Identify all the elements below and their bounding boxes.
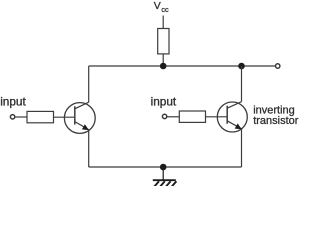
wire terminal to R2 [16, 116, 28, 118]
resistor R2 [27, 111, 54, 122]
wire R2 to Q1 base [54, 116, 75, 118]
wire node to Q1 collector [88, 66, 90, 102]
wire Q2 emitter to bottom bus [241, 129, 243, 167]
output terminal [276, 64, 280, 68]
node A junction dot [160, 63, 167, 70]
transistor Q2 [217, 102, 247, 132]
input terminal left [10, 115, 14, 119]
ground [153, 167, 177, 187]
svg-text:input: input [151, 94, 177, 108]
wire R3 to Q2 base [206, 116, 228, 118]
input terminal right [162, 114, 166, 118]
svg-text:Vcc: Vcc [154, 0, 169, 14]
bottom bus wire [89, 166, 242, 168]
svg-text:transistor: transistor [253, 115, 299, 127]
Vcc supply label [154, 0, 169, 14]
node B junction dot [238, 63, 245, 70]
wire node B to Q2 collector [241, 66, 243, 102]
wire Vcc to R1 [162, 16, 164, 29]
resistor R1 [158, 29, 169, 54]
top bus wire [89, 65, 278, 67]
label inverting transistor [253, 105, 299, 127]
wire terminal to R3 [167, 116, 179, 118]
resistor R3 [179, 111, 205, 122]
wire Q1 emitter to bottom bus [88, 130, 90, 167]
ground node junction dot [160, 164, 167, 171]
svg-text:input: input [0, 94, 26, 108]
transistor Q1 [64, 102, 95, 133]
wire R1 to node A [162, 54, 164, 66]
